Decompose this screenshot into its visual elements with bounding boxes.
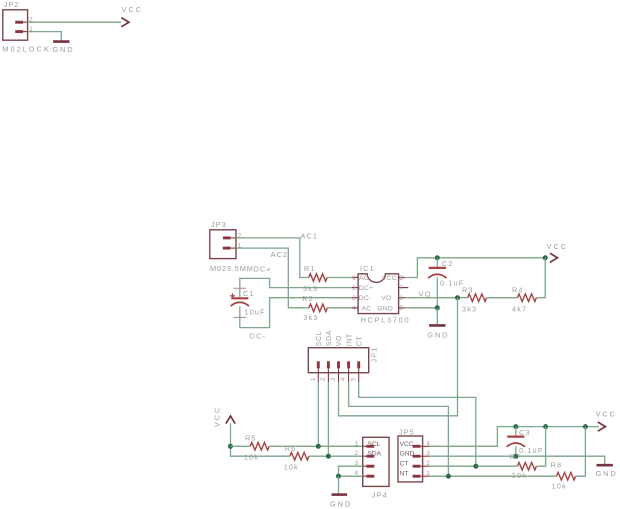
junction VCC rail / R8 xyxy=(583,424,588,429)
svg-text:GND: GND xyxy=(377,305,393,312)
svg-text:VCC: VCC xyxy=(596,409,617,418)
label R4 value 4k7 xyxy=(512,305,527,314)
net label VO rotated at JP1.3 xyxy=(336,335,343,346)
svg-text:R7: R7 xyxy=(510,452,522,461)
connector JP3 body xyxy=(210,230,236,259)
resistor R8 xyxy=(557,472,576,480)
svg-text:4k7: 4k7 xyxy=(512,305,527,314)
label JP2 value M02LOCK xyxy=(2,45,51,54)
svg-text:10k: 10k xyxy=(244,452,259,461)
svg-text:10uF: 10uF xyxy=(245,308,266,317)
label JP3 value M023.5MM xyxy=(210,264,254,273)
connector JP1 body xyxy=(308,348,368,373)
wire VCC to R5 xyxy=(231,445,251,447)
JP1 pin number 4 xyxy=(340,377,347,381)
JP5 pin 1 pad xyxy=(413,475,430,478)
svg-text:GND: GND xyxy=(400,451,415,458)
svg-text:VO: VO xyxy=(336,335,343,346)
svg-text:CT: CT xyxy=(400,461,409,468)
svg-text:1: 1 xyxy=(355,440,359,447)
svg-text:R1: R1 xyxy=(304,264,316,273)
svg-text:IC1: IC1 xyxy=(360,264,375,273)
IC1 pin 6 stub xyxy=(399,297,405,299)
wire net SCL from R5 to JP4.1 xyxy=(269,445,363,447)
wire JP4.3 to ground xyxy=(339,466,363,476)
svg-text:0.1uF: 0.1uF xyxy=(519,446,543,455)
JP4 pin 2 pad xyxy=(363,455,375,458)
svg-text:NT: NT xyxy=(400,471,409,478)
label R8 name xyxy=(551,461,563,470)
IC1 pin 2 stub xyxy=(352,287,358,289)
JP1 pin 5 pad xyxy=(357,361,360,382)
svg-text:6: 6 xyxy=(399,295,403,302)
net label SDA at JP4.2 xyxy=(368,451,382,458)
wire net GND from JP5.3 xyxy=(430,456,605,464)
IC1 pin 8 stub xyxy=(399,277,405,279)
ground symbol bottom-right xyxy=(597,464,613,467)
svg-text:SCL: SCL xyxy=(316,331,323,346)
label R7 value 10k xyxy=(512,471,527,480)
JP5 pin 2 pad xyxy=(413,465,430,468)
junction VO / vertical to JP1.3 xyxy=(455,295,460,300)
JP5 pin number 1 xyxy=(426,470,430,477)
net label DC+ xyxy=(254,264,272,273)
wire ground drop below JP4 xyxy=(338,476,340,493)
label IC1 value HCPL3700 xyxy=(361,315,411,324)
svg-text:0.1uF: 0.1uF xyxy=(440,278,464,287)
JP4 pin number 4 xyxy=(355,470,359,477)
svg-text:R3: R3 xyxy=(462,285,474,294)
JP5 pin 4 pad xyxy=(413,445,430,448)
net label CT rotated at JP1.5 xyxy=(356,336,363,347)
net label GND at JP5.3 xyxy=(400,451,415,458)
wire net SDA from R6 to JP4.2 xyxy=(309,455,363,457)
wire net NT from JP5.1 to R8 xyxy=(430,475,557,477)
svg-text:GND: GND xyxy=(596,469,618,478)
resistor R6 xyxy=(290,452,309,460)
svg-text:VO: VO xyxy=(381,295,391,302)
wire GND drop below C2 xyxy=(436,308,438,325)
label GND at JP2 xyxy=(52,45,74,54)
svg-text:R5: R5 xyxy=(245,434,257,443)
svg-text:AC2: AC2 xyxy=(271,250,289,259)
junction VCC rail / R4 riser xyxy=(543,255,548,260)
IC1 pin name VCC xyxy=(382,275,397,282)
net label INT rotated at JP1.4 xyxy=(346,333,353,346)
junction SDA / JP1.2 xyxy=(326,454,331,459)
wire IC1 pin 8 to VCC rail xyxy=(405,258,545,278)
capacitor C1 pin mark top xyxy=(234,287,247,289)
svg-text:AC1: AC1 xyxy=(301,232,319,241)
junction CT / JP1.5 xyxy=(473,464,478,469)
label JP1 name xyxy=(370,347,379,363)
net label DC- xyxy=(250,332,266,341)
IC1 pin name DC- xyxy=(359,295,372,302)
JP4 pin number 3 xyxy=(355,460,359,467)
svg-text:INT: INT xyxy=(346,333,353,346)
label R1 name xyxy=(304,264,316,273)
resistor R5 xyxy=(250,443,269,451)
wire net VO down to JP1 pin 3 xyxy=(339,298,458,416)
junction VCC rail / C2 xyxy=(435,255,440,260)
label C2 value 0.1uF xyxy=(440,278,464,287)
wire R3 to R4 xyxy=(487,297,518,299)
svg-text:2: 2 xyxy=(320,377,327,381)
IC1 pin 3 stub xyxy=(352,297,358,299)
svg-text:VCC: VCC xyxy=(122,5,143,14)
connector JP5 body xyxy=(398,436,423,482)
svg-text:R6: R6 xyxy=(285,444,297,453)
JP5 pin 3 pad xyxy=(413,455,430,458)
wire VCC down to pullup rows xyxy=(231,423,290,456)
svg-text:3: 3 xyxy=(330,377,337,381)
svg-text:JP3: JP3 xyxy=(211,220,227,229)
resistor R2 xyxy=(309,304,327,312)
wire net CT from JP5.2 to R7 xyxy=(430,465,518,467)
label GND below JP4 xyxy=(330,499,352,508)
capacitor C1 pin mark bottom xyxy=(234,316,247,318)
net label SCL at JP4.1 xyxy=(368,441,381,448)
svg-text:GND: GND xyxy=(52,45,74,54)
svg-text:GND: GND xyxy=(427,331,449,340)
JP2 pin 2 pad xyxy=(15,21,27,24)
svg-text:10k: 10k xyxy=(284,463,299,472)
svg-text:SCL: SCL xyxy=(368,441,381,448)
svg-text:5: 5 xyxy=(350,377,357,381)
IC1 pin 4 stub xyxy=(352,307,358,309)
net label SCL rotated at JP1.1 xyxy=(316,331,323,346)
label R7 name xyxy=(510,452,522,461)
JP4 pin 3 pad xyxy=(363,465,375,468)
label R6 name xyxy=(285,444,297,453)
junction JP4 ground xyxy=(336,474,341,479)
label JP4 name xyxy=(372,491,388,500)
wire C2 top lead xyxy=(436,258,438,267)
svg-text:2: 2 xyxy=(355,450,359,457)
IC1 pin name AC row1 xyxy=(359,275,369,282)
ground symbol at JP2 xyxy=(53,40,69,43)
JP1 pin 2 pad xyxy=(327,361,330,382)
junction VCC rail / R7 xyxy=(543,424,548,429)
JP5 pin number 4 xyxy=(426,440,430,447)
svg-text:M023.5MM: M023.5MM xyxy=(210,264,254,273)
label C1 value 10uF xyxy=(245,308,266,317)
JP1 pin number 3 xyxy=(330,377,337,381)
IC1 pin 1 stub xyxy=(352,277,358,279)
svg-text:VCC: VCC xyxy=(547,242,568,251)
JP1 pin 3 pad xyxy=(337,361,340,382)
svg-text:10k: 10k xyxy=(552,482,567,491)
capacitor C3 plates xyxy=(507,437,525,447)
op-amp U1 body IC1 xyxy=(358,274,399,314)
capacitor C1 plus sign xyxy=(230,293,235,298)
IC1 pin name VO xyxy=(381,295,391,302)
JP1 pin number 2 xyxy=(320,377,327,381)
label VCC top-left xyxy=(122,5,143,14)
svg-text:4: 4 xyxy=(340,377,347,381)
label C1 name xyxy=(243,289,255,298)
wire JP2.2 to VCC xyxy=(28,21,121,23)
label R5 value 10k xyxy=(244,452,259,461)
label C3 name xyxy=(519,428,531,437)
label R4 name xyxy=(512,285,524,294)
IC1 pin number 5 xyxy=(399,305,403,312)
label R2 value 3k3 xyxy=(303,313,318,322)
wire C3 top lead xyxy=(515,427,517,436)
wire net AC1 from JP3.2 to R1 xyxy=(236,238,309,278)
IC1 pin name DC+ xyxy=(359,285,373,292)
label R8 value 10k xyxy=(552,482,567,491)
wire R1 to IC1 pin 1 xyxy=(327,277,352,279)
wire R8 up to VCC rail xyxy=(576,427,586,477)
svg-text:GND: GND xyxy=(330,499,352,508)
resistor R4 xyxy=(517,294,536,302)
wire net DC+ C1 top to IC1 pin 2 xyxy=(240,278,352,297)
svg-text:CT: CT xyxy=(356,336,363,347)
JP4 pin number 2 xyxy=(355,450,359,457)
label JP2 name xyxy=(4,0,20,9)
JP1 pin 4 pad xyxy=(347,361,350,382)
IC1 pin number 7 xyxy=(399,285,403,292)
wire net AC2 from JP3.1 to R2 xyxy=(236,248,309,308)
svg-text:2: 2 xyxy=(352,285,356,292)
supply VCC symbol bottom-right xyxy=(598,422,606,431)
JP2 pin 1 pad xyxy=(15,30,27,33)
label JP3 name xyxy=(211,220,227,229)
ground symbol below JP4 xyxy=(332,493,348,496)
label GND below C2 xyxy=(427,331,449,340)
svg-text:JP1: JP1 xyxy=(370,347,379,363)
label R5 name xyxy=(245,434,257,443)
wire R7 up to VCC rail xyxy=(536,427,545,467)
JP3 pin number 1 xyxy=(238,243,242,250)
svg-text:VCC: VCC xyxy=(400,441,414,448)
resistor R7 xyxy=(517,462,536,470)
net label SDA rotated at JP1.2 xyxy=(326,330,333,346)
wire JP1.1 down to SCL row xyxy=(317,382,319,446)
resistor R1 xyxy=(309,274,327,282)
connector JP4 body xyxy=(363,437,389,486)
wire JP5.4 to VCC rail xyxy=(430,427,599,447)
wire JP1.4 to NT row xyxy=(349,382,449,476)
svg-text:3k3: 3k3 xyxy=(462,305,477,314)
JP4 pin 1 pad xyxy=(363,445,375,448)
label R3 name xyxy=(462,285,474,294)
JP5 pin number 3 xyxy=(426,450,430,457)
ground symbol below C2 xyxy=(429,324,445,327)
wire R2 to IC1 pin 4 xyxy=(327,307,352,309)
svg-text:C1: C1 xyxy=(243,289,255,298)
svg-text:VO: VO xyxy=(419,290,432,299)
JP3 pin number 2 xyxy=(238,232,242,239)
supply VCC symbol top-left xyxy=(121,18,129,27)
net label CT at JP5.2 xyxy=(400,461,409,468)
svg-text:DC+: DC+ xyxy=(359,285,373,292)
wire net VO from IC1 pin 6 xyxy=(405,297,468,299)
svg-text:3k3: 3k3 xyxy=(303,284,318,293)
wire R4 up to VCC rail xyxy=(536,258,545,298)
label VCC rotated lower-left xyxy=(213,406,222,427)
resistor R3 xyxy=(468,294,487,302)
supply VCC symbol lower-left xyxy=(226,416,235,424)
JP1 pin number 5 xyxy=(350,377,357,381)
connector JP2 body xyxy=(3,10,28,40)
svg-text:AC: AC xyxy=(359,275,369,282)
wire net DC- C1 bottom to IC1 pin 3 xyxy=(240,298,352,328)
wire C2 bottom lead to GND row xyxy=(436,278,438,308)
svg-text:5: 5 xyxy=(399,305,403,312)
JP5 pin number 2 xyxy=(426,460,430,467)
svg-text:C2: C2 xyxy=(442,259,454,268)
capacitor C1 plates xyxy=(231,298,249,306)
IC1 pin number 1 xyxy=(352,275,356,282)
svg-text:HCPL3700: HCPL3700 xyxy=(361,315,411,324)
IC1 pin number 4 xyxy=(352,305,356,312)
JP4 pin 4 pad xyxy=(363,475,375,478)
JP1 pin number 1 xyxy=(310,377,317,381)
label R1 value 3k3 xyxy=(303,284,318,293)
junction SCL / JP1.1 xyxy=(316,444,321,449)
net label AC2 xyxy=(271,250,289,259)
IC1 pin number 8 xyxy=(399,275,403,282)
IC1 pin number 2 xyxy=(352,285,356,292)
net label AC1 xyxy=(301,232,319,241)
JP4 pin number 1 xyxy=(355,440,359,447)
svg-text:R8: R8 xyxy=(551,461,563,470)
svg-text:8: 8 xyxy=(399,275,403,282)
junction VCC / R5 row xyxy=(228,444,233,449)
svg-text:JP5: JP5 xyxy=(399,427,415,436)
label VCC mid xyxy=(547,242,568,251)
svg-text:DC-: DC- xyxy=(359,295,372,302)
label R6 value 10k xyxy=(284,463,299,472)
capacitor C2 plates xyxy=(428,268,446,278)
JP1 pin 1 pad xyxy=(317,361,320,382)
svg-text:R2: R2 xyxy=(302,294,314,303)
svg-text:DC-: DC- xyxy=(250,332,266,341)
label JP5 name xyxy=(399,427,415,436)
junction C2 / pin5 GND xyxy=(435,305,440,310)
JP3 pin 2 pad xyxy=(223,236,236,239)
svg-text:4: 4 xyxy=(352,305,356,312)
label C3 value 0.1uF xyxy=(519,446,543,455)
label GND bottom-right xyxy=(596,469,618,478)
svg-text:SDA: SDA xyxy=(326,330,333,346)
IC1 pin name AC row4 xyxy=(362,305,372,312)
svg-text:SDA: SDA xyxy=(368,451,382,458)
junction NT / JP1.4 xyxy=(446,474,451,479)
IC1 pin 5 stub xyxy=(399,307,405,309)
svg-text:JP2: JP2 xyxy=(4,0,20,9)
junction GND row / C3 xyxy=(513,454,518,459)
JP2 pin number 1 xyxy=(29,26,33,33)
label R2 name xyxy=(302,294,314,303)
svg-text:JP4: JP4 xyxy=(372,491,388,500)
svg-text:1: 1 xyxy=(310,377,317,381)
IC1 pin 7 stub xyxy=(399,287,409,289)
svg-text:1: 1 xyxy=(352,275,356,282)
svg-text:M02LOCK: M02LOCK xyxy=(2,45,51,54)
svg-text:VCC: VCC xyxy=(213,406,222,427)
wire JP4.4 to ground xyxy=(339,475,363,477)
IC1 pin name GND xyxy=(377,305,393,312)
label VCC bottom-right xyxy=(596,409,617,418)
junction VCC rail / C3 xyxy=(513,424,518,429)
wire JP2.1 to ground xyxy=(28,32,62,41)
svg-text:3k3: 3k3 xyxy=(303,313,318,322)
label IC1 name xyxy=(360,264,375,273)
svg-text:AC: AC xyxy=(362,305,372,312)
IC1 pin number 6 xyxy=(399,295,403,302)
wire C3 bottom lead to GND row xyxy=(515,446,517,456)
IC1 pin number 3 xyxy=(352,295,356,302)
wire IC1 pin 5 to GND xyxy=(405,307,438,309)
net label VO xyxy=(419,290,432,299)
svg-text:3: 3 xyxy=(352,295,356,302)
wire JP1.5 to CT row xyxy=(359,382,476,466)
svg-text:VCC: VCC xyxy=(382,275,397,282)
svg-text:DC+: DC+ xyxy=(254,264,272,273)
label R3 value 3k3 xyxy=(462,305,477,314)
net label NT at JP5.1 xyxy=(400,471,409,478)
svg-text:7: 7 xyxy=(399,285,403,292)
JP3 pin 1 pad xyxy=(223,247,236,250)
wire JP1.2 down to SDA row xyxy=(327,382,329,456)
svg-text:R4: R4 xyxy=(512,285,524,294)
label C2 name xyxy=(442,259,454,268)
JP2 pin number 2 xyxy=(29,16,33,23)
supply VCC symbol mid xyxy=(550,253,558,262)
net label VCC at JP5.4 xyxy=(400,441,414,448)
